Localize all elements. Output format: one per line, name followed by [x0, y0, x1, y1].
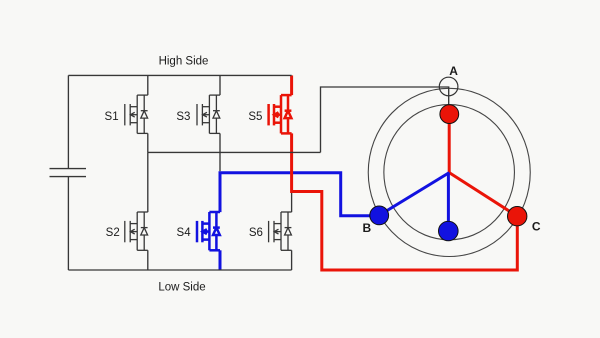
ball rotor (blue): [439, 221, 459, 241]
svg-text:S2: S2: [106, 227, 120, 239]
wire: S6 source lead: [291, 250, 293, 270]
wire: blue path S4 drain to node B: [220, 173, 372, 216]
wire: red path S5 source to node C: [292, 133, 518, 270]
winding C (red, center to ball C): [449, 173, 517, 217]
svg-text:B: B: [362, 221, 371, 235]
wire: top DC rail: [68, 74, 291, 76]
wire: S4 source lead (blue): [219, 250, 222, 270]
wire: S5 drain lead (red): [290, 75, 293, 95]
svg-text:High Side: High Side: [159, 56, 209, 68]
svg-text:S1: S1: [105, 111, 119, 123]
wire: S3 source lead: [219, 133, 221, 171]
motor stator inner circle: [384, 105, 515, 240]
svg-text:Low Side: Low Side: [158, 282, 205, 294]
wire: S2 source lead: [147, 250, 149, 270]
transistor S2: [125, 212, 148, 250]
ball node C (red): [508, 207, 527, 226]
ball node A (red): [440, 105, 459, 124]
capacitor C1 top plate: [50, 168, 87, 170]
rotor pointer (blue, center to bottom ball): [447, 173, 450, 231]
wire: S1 source lead: [147, 133, 149, 152]
wire: phase A to node A: [321, 87, 449, 152]
wire: left rail bottom (capacitor to low rail): [67, 177, 69, 270]
wire: bottom DC rail: [68, 269, 291, 271]
svg-text:C: C: [532, 219, 541, 233]
wire: S1 drain lead: [147, 75, 149, 95]
motor stator outer circle: [368, 88, 530, 256]
transistor S1: [125, 95, 148, 133]
wire: phase A mid rail: [148, 151, 321, 153]
svg-text:S6: S6: [249, 227, 263, 239]
transistor S5 (active, red): [269, 95, 292, 133]
winding B (blue, center to ball B): [379, 173, 449, 216]
transistor S3: [197, 95, 220, 133]
wire: S6 drain lead: [291, 193, 293, 212]
svg-text:S5: S5: [248, 111, 262, 123]
winding A (red, ball A to center): [448, 114, 451, 173]
wire: left rail top (to capacitor): [67, 75, 69, 168]
node A terminal circle: [439, 77, 458, 96]
svg-text:S4: S4: [177, 227, 192, 239]
transistor S6: [269, 212, 292, 250]
capacitor C1 bottom plate: [50, 176, 87, 178]
transistor S4 (active, blue): [197, 212, 220, 250]
wire: S2 drain lead: [147, 152, 149, 212]
svg-text:S3: S3: [176, 111, 190, 123]
ball node B (blue): [370, 206, 389, 225]
wire: S3 drain lead: [219, 75, 221, 95]
svg-text:A: A: [449, 64, 458, 78]
